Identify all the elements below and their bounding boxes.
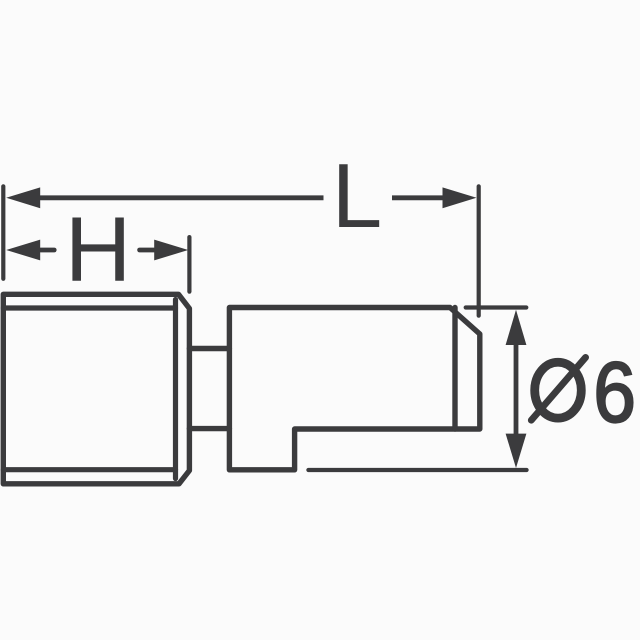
neck top line (189, 346, 229, 351)
extension line left (1, 186, 5, 278)
arrow H right (154, 240, 188, 261)
arrow L right (443, 187, 477, 208)
barrel chamfer inner line (452, 308, 457, 430)
arrow H left (6, 240, 40, 261)
extension line diameter bottom (308, 468, 526, 472)
svg-text:L: L (332, 146, 382, 247)
extension line diameter top (466, 305, 527, 309)
dimension line diameter (514, 344, 519, 435)
dimension line H (40, 248, 54, 253)
label diameter symbol (531, 357, 585, 420)
hex body inner top line (3, 305, 175, 310)
extension line right of H (187, 237, 191, 292)
barrel outline (229, 308, 479, 470)
dimension line L (38, 195, 324, 200)
neck bottom line (189, 426, 229, 431)
extension line right of L (477, 186, 481, 315)
arrow L left (6, 187, 40, 208)
hex body inner bottom line (3, 467, 175, 472)
label diameter value 6 (593, 346, 636, 441)
hex body outline (3, 294, 189, 484)
arrow diameter down (506, 434, 527, 468)
hex body inner right line (173, 300, 178, 479)
arrow diameter up (506, 310, 527, 345)
svg-text:H: H (65, 199, 131, 301)
svg-text:6: 6 (593, 346, 636, 441)
